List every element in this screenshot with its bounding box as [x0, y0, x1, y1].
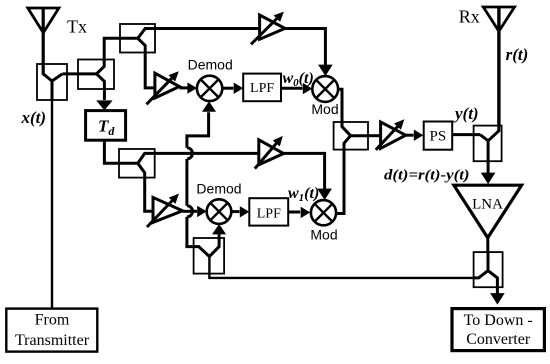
- antenna Tx: [28, 8, 59, 75]
- svg-text:PS: PS: [430, 128, 447, 144]
- wire A3 to Mod2 top: [284, 153, 332, 200]
- wire feedback d(t) to C5: [209, 255, 473, 278]
- coupler C9: [474, 252, 503, 287]
- svg-text:Transmitter: Transmitter: [15, 332, 90, 349]
- wire A-top to Mod1 top: [285, 29, 333, 77]
- antenna Rx: [483, 7, 514, 126]
- svg-text:r(t): r(t): [506, 45, 529, 64]
- wire LPF1 to Mod1: [281, 83, 312, 94]
- wire Demod2 to LPF2: [231, 206, 249, 217]
- amplifier A1 variable gain: [147, 71, 180, 104]
- coupler C2: [78, 60, 114, 90]
- coupler C4: [119, 149, 155, 178]
- wire A1 to Demod1: [179, 82, 197, 93]
- wire Mod1 to C7: [338, 89, 342, 122]
- svg-text:To Down -: To Down -: [464, 312, 533, 329]
- amplifier A3 variable gain: [255, 136, 284, 169]
- amplifier A2 variable gain: [147, 194, 183, 228]
- filter LPF1: [243, 74, 281, 102]
- coupler C8: [474, 126, 502, 162]
- coupler C3: [120, 24, 155, 53]
- wire LPF2 to Mod2: [288, 207, 310, 218]
- svg-text:Rx: Rx: [459, 6, 480, 26]
- mixer Demod2: [207, 199, 232, 224]
- delay Td: [86, 111, 126, 141]
- wire Td to C4: [104, 140, 119, 163]
- amplifier LNA: [454, 185, 522, 238]
- svg-text:Mod: Mod: [310, 227, 337, 243]
- coupler C7: [334, 122, 368, 150]
- wire C2 to C3: [104, 38, 138, 61]
- svg-text:LPF: LPF: [250, 81, 274, 96]
- filter LPF2: [249, 198, 288, 225]
- coupler C1: [37, 64, 67, 100]
- svg-text:From: From: [35, 312, 70, 329]
- wire Demod1 reference input arrow: [202, 101, 216, 112]
- svg-text:Tx: Tx: [67, 17, 87, 37]
- svg-text:Demod: Demod: [196, 180, 241, 196]
- wire LNA to C9: [486, 238, 489, 252]
- wire C5 riser to Demod1 with crossover hops: [187, 112, 209, 246]
- block To Down-Converter: [452, 309, 544, 351]
- wire w1 branch C4 to A3: [155, 152, 259, 155]
- amplifier A-cancel variable gain: [376, 119, 406, 150]
- svg-text:x(t): x(t): [21, 108, 47, 127]
- phase shifter PS: [424, 122, 453, 150]
- mixer Mod1: [312, 76, 338, 102]
- svg-text:d(t)=r(t)-y(t): d(t)=r(t)-y(t): [384, 168, 470, 184]
- svg-text:Demod: Demod: [188, 57, 233, 73]
- wire PS to C8: [452, 133, 480, 136]
- wire C3 to top amplifier: [155, 27, 259, 30]
- wire C4 down to A2: [145, 178, 153, 212]
- svg-text:w1(t): w1(t): [288, 185, 319, 204]
- svg-text:LNA: LNA: [472, 197, 503, 213]
- wire A-cancel to PS: [406, 130, 424, 141]
- svg-text:Converter: Converter: [466, 331, 531, 348]
- wire C7 to cancel amplifier: [368, 134, 381, 137]
- wire x(t) line: [51, 100, 53, 309]
- coupler C5: [194, 238, 225, 274]
- svg-text:w0(t): w0(t): [283, 70, 314, 89]
- wire Demod1 to LPF1: [222, 83, 243, 94]
- svg-text:Mod: Mod: [311, 101, 338, 117]
- block From Transmitter: [6, 309, 97, 352]
- wire A2 to Demod2: [183, 206, 207, 217]
- svg-text:LPF: LPF: [257, 206, 281, 221]
- mixer Demod1: [197, 76, 222, 101]
- wire Mod2 to C7 bottom: [336, 150, 344, 214]
- wire C8 to LNA: [481, 161, 496, 184]
- wire C5 to Demod2 reference: [212, 224, 226, 238]
- wire C3 down to amplifier A1: [145, 53, 155, 88]
- wire C1 to C2: [63, 72, 97, 75]
- svg-text:y(t): y(t): [453, 104, 479, 123]
- amplifier A-top variable gain: [251, 12, 285, 45]
- mixer Mod2: [311, 200, 336, 225]
- wire C9 to To-Down-Converter: [490, 287, 505, 304]
- wire C2 to Td: [96, 89, 112, 110]
